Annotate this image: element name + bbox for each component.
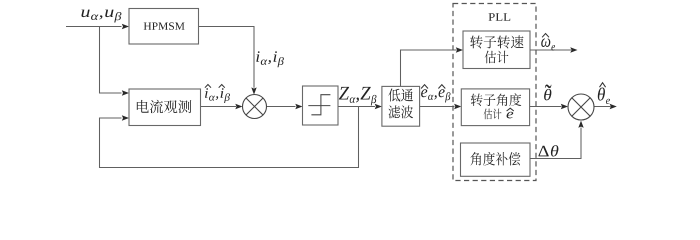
wire branch u down to current observer — [100, 27, 122, 94]
block current observer — [129, 89, 201, 126]
text speed estimator line2 — [485, 51, 509, 64]
arrowhead into right multiplier from left — [561, 104, 568, 109]
block rotor angle estimator — [461, 89, 529, 126]
text low-pass line1 — [388, 88, 413, 101]
text rotor angle line2 — [484, 109, 502, 120]
arrowhead into rotor angle estimator — [454, 104, 461, 109]
multiplier cross left — [246, 98, 263, 115]
arrowhead into sign block — [295, 104, 302, 109]
text PLL — [488, 13, 510, 21]
text HPMSM — [144, 22, 185, 29]
hat over omega — [542, 34, 549, 38]
hat over theta_e — [600, 83, 606, 88]
arrowhead into current observer lower input — [122, 115, 129, 120]
label Z_alpha,Z_beta — [339, 87, 377, 106]
wire branch from low-pass filter top to speed estimator — [401, 50, 457, 86]
wire sign block to low-pass filter — [338, 106, 375, 108]
block sign function — [303, 86, 339, 125]
hat over e in rotor angle block — [507, 108, 514, 111]
text angle compensation — [470, 152, 520, 166]
wire multiplier to sign block — [267, 106, 296, 108]
tilde over theta — [545, 84, 551, 88]
sign function step curve — [311, 95, 330, 115]
arrowhead speed output — [570, 47, 577, 52]
hat over i-hat alpha — [205, 85, 211, 88]
label omega-hat_e — [541, 38, 555, 50]
wire u input — [66, 26, 122, 28]
arrowhead into speed estimator — [456, 47, 463, 52]
block low-pass filter — [382, 86, 420, 126]
label i_alpha,i_beta — [256, 51, 284, 67]
wire feedback from Z node to current observer — [100, 107, 359, 168]
wire angle compensation to right multiplier — [530, 128, 581, 159]
hat over e-hat beta — [438, 85, 445, 89]
wire HPMSM output down to multiplier — [199, 27, 255, 88]
text low-pass line2 — [388, 105, 413, 118]
label e-hat_alpha,e-hat_beta — [421, 89, 450, 102]
text current observer — [137, 100, 191, 113]
arrowhead into HPMSM — [122, 24, 129, 29]
block HPMSM — [129, 9, 199, 45]
label i-hat_alpha,i-hat_beta — [205, 88, 230, 103]
label delta theta — [538, 145, 558, 156]
hat over e-hat alpha — [421, 85, 428, 89]
wire current observer output to multiplier — [201, 106, 237, 108]
text e-hat in rotor angle block — [507, 112, 514, 119]
wire rotor angle estimator to right multiplier — [530, 106, 562, 108]
block rotor speed estimator — [463, 31, 530, 69]
wire theta_e output — [594, 106, 611, 108]
multiplier circle left — [243, 95, 267, 119]
multiplier cross right — [572, 98, 590, 116]
text rotor angle line1 — [471, 93, 522, 106]
arrowhead into current observer upper input — [122, 90, 129, 95]
block angle compensation — [461, 143, 531, 176]
multiplier circle right — [568, 94, 594, 120]
PLL dashed box — [453, 4, 536, 181]
text speed estimator line1 — [470, 35, 523, 48]
arrowhead theta_e output — [610, 104, 617, 109]
arrowhead into right multiplier from bottom — [578, 121, 583, 128]
arrowhead into multiplier from top — [251, 87, 256, 94]
label u_alpha,u_beta — [81, 10, 121, 23]
arrowhead into multiplier from left — [235, 104, 242, 109]
hat over i-hat beta — [219, 85, 225, 88]
sign function axis — [308, 105, 330, 107]
label theta-tilde — [544, 89, 551, 100]
arrowhead into low-pass filter — [375, 104, 382, 109]
wire low-pass filter to rotor angle estimator — [420, 106, 455, 108]
wire speed estimator output — [530, 49, 571, 51]
label theta-hat_e — [598, 88, 610, 104]
